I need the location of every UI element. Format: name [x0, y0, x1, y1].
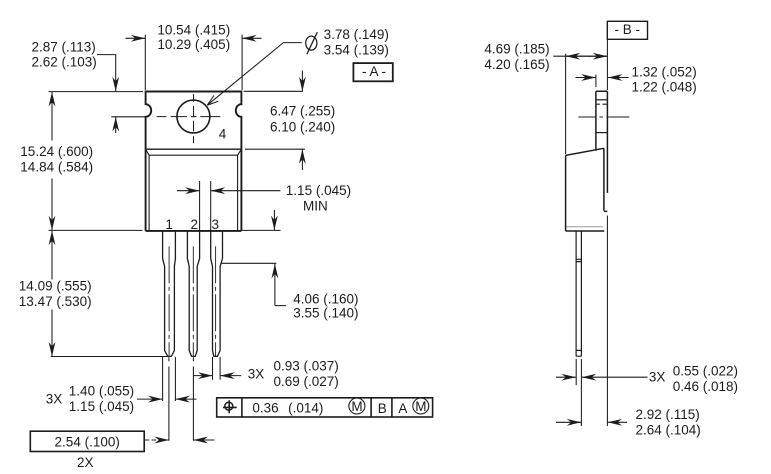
dim 1.15 MIN ext lines [200, 181, 211, 231]
svg-text:3X: 3X [649, 370, 666, 385]
dim 1.32 arrows [576, 77, 596, 79]
lead 2 centerline extension [192, 357, 194, 441]
svg-text:10.54 (.415): 10.54 (.415) [157, 23, 230, 38]
dim 6.47 ext lines [244, 91, 305, 149]
svg-text:2.62 (.103): 2.62 (.103) [32, 54, 97, 69]
dim 2.87 leader [97, 55, 116, 92]
dim 1.40 arrows [137, 398, 163, 400]
hole leader open arrowhead [207, 96, 218, 106]
svg-text:1.40 (.055): 1.40 (.055) [69, 384, 134, 399]
svg-text:2.87 (.113): 2.87 (.113) [32, 39, 96, 54]
dim 6.47 arrows [301, 71, 303, 92]
svg-text:1.32 (.052): 1.32 (.052) [632, 64, 697, 79]
datum A flag box [353, 63, 392, 81]
dim 0.93 ext lines [213, 357, 221, 380]
datum B extension line [606, 39, 608, 426]
tab side: top and left edge [596, 91, 608, 150]
dim 10.54 arrows [126, 37, 146, 39]
svg-text:A: A [398, 401, 407, 416]
svg-text:1.15 (.045): 1.15 (.045) [69, 399, 134, 414]
svg-text:0.46 (.018): 0.46 (.018) [673, 379, 738, 394]
svg-text:M: M [351, 399, 362, 414]
svg-text:0.93 (.037): 0.93 (.037) [274, 359, 339, 374]
body side: bottom [566, 230, 605, 232]
dim 0.55 arrows [556, 376, 576, 378]
svg-text:0.69 (.027): 0.69 (.027) [274, 374, 339, 389]
svg-text:1: 1 [165, 217, 173, 232]
svg-text:- A -: - A - [362, 64, 386, 79]
svg-text:3: 3 [212, 217, 220, 232]
svg-text:2.64 (.104): 2.64 (.104) [636, 422, 701, 437]
dim 15.24 line with arrows [51, 92, 53, 141]
feature control frame [217, 398, 433, 417]
lead 3 [211, 231, 223, 357]
svg-text:0.55 (.022): 0.55 (.022) [673, 364, 738, 379]
body inner face lines with corner bevels [146, 149, 242, 231]
FRONT VIEW [146, 92, 242, 357]
svg-text:B: B [378, 401, 387, 416]
datum B flag box [607, 21, 647, 39]
lead 2 [187, 231, 199, 357]
SIDE VIEW [566, 91, 630, 356]
svg-text:3.54 (.139): 3.54 (.139) [324, 43, 389, 58]
body bottom ext left [49, 229, 143, 231]
svg-text:6.47 (.255): 6.47 (.255) [270, 103, 335, 118]
dim 14.09 line with arrows [51, 231, 53, 280]
svg-text:1.22 (.048): 1.22 (.048) [632, 80, 697, 95]
lead tip ext line [51, 356, 169, 358]
tab bottom edge [146, 148, 242, 150]
lead 1 [163, 231, 176, 357]
svg-text:4.06 (.160): 4.06 (.160) [293, 291, 358, 306]
svg-text:3.78 (.149): 3.78 (.149) [324, 27, 389, 42]
hole centerline horizontal [157, 116, 221, 118]
hole diameter leader [207, 43, 301, 106]
dim 4.06 lower arrow and leader [274, 264, 276, 305]
dim 1.32 ext line above tab [595, 75, 597, 87]
svg-text:2.54 (.100): 2.54 (.100) [55, 435, 120, 450]
tab hole upper edge line [596, 99, 608, 101]
svg-text:4: 4 [219, 127, 227, 142]
svg-text:M: M [415, 399, 426, 414]
dim 4.69 line and arrows [553, 55, 607, 57]
svg-text:2: 2 [191, 217, 199, 232]
dim 10.54 ext lines [145, 35, 242, 90]
svg-text:15.24 (.600): 15.24 (.600) [20, 144, 93, 159]
svg-text:2.92 (.115): 2.92 (.115) [636, 407, 700, 422]
dim 4.69 ext line [565, 54, 567, 154]
dim 1.40 ext lines [163, 357, 176, 401]
svg-text:3X: 3X [46, 391, 63, 406]
position symbol [225, 402, 233, 410]
dim 2.92 arrows [556, 421, 581, 423]
dim 4.06 upper arrow [273, 210, 275, 230]
body side: left edge [565, 155, 567, 231]
hole centerline vertical [193, 94, 195, 143]
svg-text:2X: 2X [77, 455, 94, 470]
dim 2.54 box [30, 431, 144, 451]
tab outline with side notches [146, 92, 242, 150]
lead side view [576, 231, 581, 356]
dim 0.55 ext lines [576, 359, 581, 426]
FRONT DIMENSIONS [30, 32, 432, 451]
dim 0.55 leader line [602, 376, 648, 378]
svg-text:(.014): (.014) [288, 401, 323, 416]
svg-text:4.69 (.185): 4.69 (.185) [484, 41, 549, 56]
dim 1.15 MIN arrows [177, 190, 200, 192]
lead 1 centerline extension [168, 357, 170, 441]
lead 1 centerline [168, 246, 170, 356]
tab hole hidden dashed line [596, 103, 608, 105]
svg-text:10.29 (.405): 10.29 (.405) [157, 37, 230, 52]
dim 2.87 lower arrow [115, 117, 117, 133]
lead 3 shoulder ext line [222, 262, 277, 264]
M circle 2 [413, 398, 429, 414]
dim 0.93 arrows [193, 375, 212, 377]
dim 2.54 arrows [145, 439, 169, 441]
SIDE DIMENSIONS [553, 21, 647, 426]
svg-text:14.84 (.584): 14.84 (.584) [20, 159, 93, 174]
body outer edges [146, 149, 242, 231]
svg-text:MIN: MIN [303, 199, 328, 214]
tab side right face / datum edge upper [606, 91, 608, 193]
svg-text:14.09 (.555): 14.09 (.555) [19, 279, 92, 294]
svg-text:1.15 (.045): 1.15 (.045) [286, 183, 351, 198]
tab hole lower edge line [596, 132, 608, 134]
svg-text:3.55 (.140): 3.55 (.140) [293, 306, 358, 321]
lead 2 centerline [192, 246, 194, 356]
lead 3 centerline [215, 246, 217, 356]
body side: right face [604, 148, 607, 211]
svg-text:- B -: - B - [615, 22, 641, 37]
M circle 1 [349, 398, 365, 414]
body side faint parting line [567, 226, 604, 228]
mounting hole [177, 100, 210, 133]
svg-text:13.47 (.530): 13.47 (.530) [19, 294, 92, 309]
dim 15.24 ext top [49, 91, 144, 93]
svg-text:0.36: 0.36 [252, 401, 278, 416]
svg-text:3X: 3X [248, 367, 265, 382]
body bottom ext right [242, 229, 281, 231]
side hole centerline [578, 116, 629, 118]
body side: slanted top [566, 148, 604, 155]
notch centerline extension left [111, 116, 145, 118]
phi symbol [306, 36, 317, 50]
svg-text:4.20 (.165): 4.20 (.165) [484, 57, 549, 72]
svg-text:6.10 (.240): 6.10 (.240) [270, 119, 335, 134]
